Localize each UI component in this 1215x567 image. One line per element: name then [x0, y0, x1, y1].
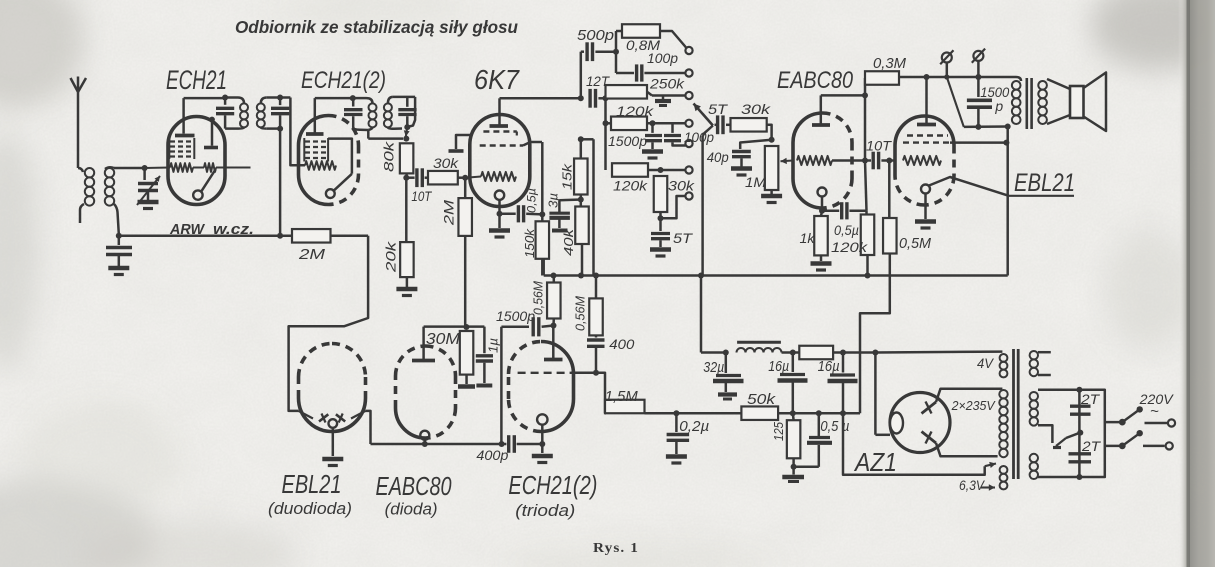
svg-text:(dioda): (dioda) [385, 501, 438, 519]
svg-text:(trioda): (trioda) [515, 502, 575, 520]
svg-text:0,5µ: 0,5µ [527, 188, 539, 213]
svg-text:0,56M: 0,56M [532, 280, 546, 315]
svg-text:1,5M: 1,5M [605, 389, 639, 405]
svg-text:EBL21: EBL21 [282, 469, 342, 499]
svg-text:3µ: 3µ [547, 193, 561, 208]
svg-text:5T: 5T [708, 101, 729, 117]
svg-text:250k: 250k [649, 76, 685, 92]
svg-text:ECH21: ECH21 [166, 65, 227, 95]
svg-text:500p: 500p [577, 28, 614, 44]
svg-text:6K7: 6K7 [474, 64, 520, 95]
svg-text:2M: 2M [441, 200, 457, 227]
svg-text:125: 125 [772, 422, 786, 441]
svg-text:30k: 30k [433, 155, 459, 171]
svg-text:100p: 100p [647, 50, 678, 66]
svg-text:EBL21: EBL21 [1014, 169, 1075, 197]
svg-text:1µ: 1µ [487, 338, 501, 353]
svg-text:ECH21(2): ECH21(2) [301, 67, 386, 94]
svg-text:32µ: 32µ [703, 360, 724, 376]
svg-text:0,2µ: 0,2µ [679, 419, 709, 435]
svg-text:16µ: 16µ [768, 359, 789, 375]
svg-text:40p: 40p [707, 149, 729, 165]
svg-text:1500p: 1500p [608, 134, 648, 149]
svg-text:100p: 100p [684, 130, 714, 145]
svg-text:1500p: 1500p [496, 308, 535, 324]
svg-text:400p: 400p [476, 447, 508, 463]
svg-text:0,5µ: 0,5µ [834, 223, 859, 238]
svg-text:120k: 120k [831, 239, 868, 255]
svg-text:10T: 10T [411, 189, 433, 204]
svg-text:2×235V: 2×235V [951, 398, 996, 413]
svg-text:EABC80: EABC80 [777, 67, 854, 94]
svg-text:150k: 150k [523, 228, 537, 258]
svg-text:1M: 1M [745, 174, 766, 190]
svg-text:40k: 40k [561, 227, 576, 256]
svg-text:AZ1: AZ1 [853, 447, 897, 477]
svg-text:0,56M: 0,56M [574, 295, 588, 331]
svg-text:10T: 10T [866, 139, 893, 154]
svg-text:Rys. 1: Rys. 1 [593, 541, 639, 556]
svg-text:ARW: ARW [169, 222, 205, 238]
svg-text:120k: 120k [616, 103, 654, 119]
svg-text:15k: 15k [560, 162, 575, 190]
svg-text:EABC80: EABC80 [376, 471, 452, 501]
svg-text:30k: 30k [741, 101, 771, 117]
svg-text:(duodioda): (duodioda) [268, 500, 352, 518]
svg-text:2T: 2T [1081, 438, 1102, 454]
svg-text:6,3V: 6,3V [959, 478, 986, 493]
svg-text:4V: 4V [977, 356, 995, 371]
svg-text:120k: 120k [613, 178, 648, 194]
svg-text:Odbiornik ze stabilizacją siły: Odbiornik ze stabilizacją siły głosu [235, 17, 518, 37]
svg-text:ECH21(2): ECH21(2) [508, 470, 597, 500]
svg-text:5T: 5T [673, 230, 694, 246]
svg-text:50k: 50k [747, 391, 777, 408]
svg-text:0,3M: 0,3M [873, 56, 907, 72]
svg-text:~: ~ [1150, 403, 1159, 420]
svg-text:w.cz.: w.cz. [213, 222, 254, 238]
svg-text:30k: 30k [668, 178, 695, 194]
svg-text:0,5M: 0,5M [899, 236, 932, 252]
svg-text:2T: 2T [1080, 391, 1101, 407]
svg-text:1k: 1k [800, 230, 816, 246]
svg-text:20k: 20k [383, 241, 399, 274]
svg-text:2M: 2M [298, 246, 326, 263]
svg-text:400: 400 [609, 336, 634, 352]
svg-text:0,5 µ: 0,5 µ [820, 419, 849, 435]
svg-text:p: p [994, 98, 1003, 114]
svg-text:80k: 80k [381, 141, 397, 172]
svg-text:16µ: 16µ [818, 359, 840, 375]
